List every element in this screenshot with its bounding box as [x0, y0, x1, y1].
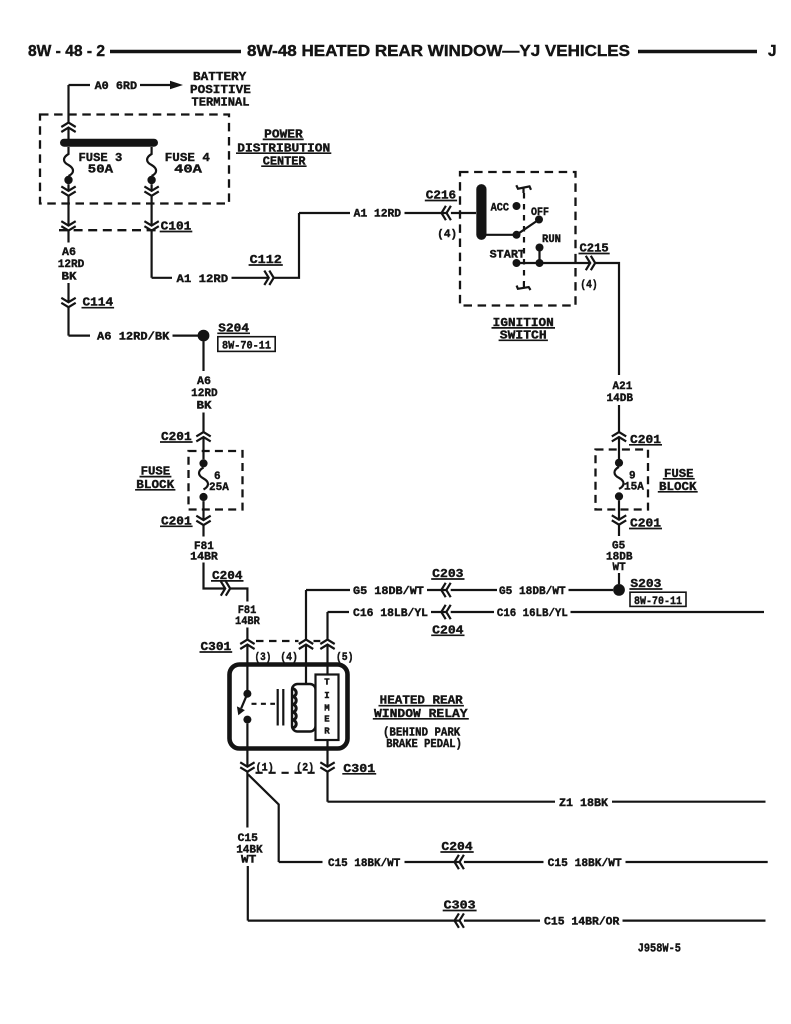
relay switch bottom dot: [243, 716, 251, 724]
terminal dot RUN: [536, 244, 544, 252]
power distribution center box: [40, 115, 229, 204]
fuse 6 top dot: [199, 459, 207, 467]
svg-text:8W - 48 - 2: 8W - 48 - 2: [28, 43, 105, 60]
connector C112 chevrons: [264, 271, 273, 285]
wire C15 14BK WT down: [247, 866, 249, 921]
svg-text:BK: BK: [197, 401, 212, 413]
terminal dot OFF: [535, 216, 543, 224]
svg-text:I: I: [324, 691, 329, 701]
svg-text:A1 12RD: A1 12RD: [177, 274, 229, 286]
svg-text:25A: 25A: [209, 482, 229, 494]
fuse 6 bottom dot: [199, 493, 207, 501]
wire G5 18DB/WT run: [306, 589, 613, 591]
wire fuse 9 to C201: [618, 501, 620, 537]
connector C204 bottom chevrons: [455, 855, 464, 869]
svg-text:(2): (2): [296, 762, 314, 774]
relay armature dashed link: [252, 703, 276, 705]
connector C201 left bottom chevrons: [196, 516, 210, 525]
svg-text:Z1 18BK: Z1 18BK: [559, 798, 608, 810]
relay switch blade: [241, 694, 247, 709]
svg-text:C16 18LB/YL: C16 18LB/YL: [353, 608, 428, 620]
connector C215 chevrons: [586, 256, 595, 270]
connector C203 chevrons: [441, 583, 450, 597]
svg-text:WT: WT: [613, 562, 627, 574]
junction dot RUN/START: [536, 259, 544, 267]
connector C101 chevrons left: [61, 221, 75, 230]
svg-text:OFF: OFF: [531, 207, 549, 219]
fuse F4 node dot: [147, 176, 155, 184]
svg-text:BRAKE PEDAL): BRAKE PEDAL): [386, 738, 462, 751]
wire relay pin 5 drop: [326, 612, 328, 675]
svg-text:A0 6RD: A0 6RD: [95, 81, 138, 93]
header rule left: [110, 50, 241, 53]
fuse 6 element: [199, 468, 208, 490]
svg-text:8W-48 HEATED REAR WINDOW—YJ VE: 8W-48 HEATED REAR WINDOW—YJ VEHICLES: [247, 43, 630, 60]
svg-text:(5): (5): [336, 652, 354, 664]
fuse 9 bottom dot: [615, 492, 623, 500]
connector C204 chevrons on F81: [221, 581, 230, 595]
svg-text:RUN: RUN: [542, 234, 561, 246]
svg-text:14DB: 14DB: [607, 393, 634, 405]
connector C301 bottom dashed line: [256, 772, 319, 774]
fuse F3 wire to connector: [67, 184, 69, 242]
svg-text:12RD: 12RD: [58, 259, 85, 271]
svg-text:M: M: [324, 704, 329, 714]
battery arrow: [170, 81, 183, 90]
fuse 9 top dot: [615, 459, 623, 467]
svg-text:TERMINAL: TERMINAL: [192, 95, 250, 109]
wire relay pin 1: [246, 724, 248, 828]
svg-text:J958W-5: J958W-5: [638, 943, 681, 956]
reference box 8W-70-11 at S203: [630, 592, 686, 606]
ignition switch feed bar: [476, 189, 486, 235]
wire START output: [517, 263, 620, 375]
svg-text:(1): (1): [256, 762, 274, 774]
wire fuse 6 to C201: [202, 501, 204, 536]
svg-text:A21: A21: [613, 381, 633, 393]
splice S204 dot: [198, 330, 210, 342]
svg-text:A6: A6: [62, 247, 76, 259]
wire RUN to start feed: [538, 248, 540, 264]
header rule right: [638, 50, 757, 53]
svg-text:C16 16LB/YL: C16 16LB/YL: [497, 608, 568, 620]
fuse F4 element: [147, 147, 156, 176]
wire F81 to C301 pin 3: [246, 628, 248, 691]
svg-text:(4): (4): [580, 279, 597, 291]
relay box: [230, 665, 348, 749]
svg-text:G5 18DB/WT: G5 18DB/WT: [499, 586, 566, 598]
ignition switch box: [460, 172, 576, 306]
timer box: [316, 675, 339, 741]
relay switch blade arrowhead: [237, 706, 245, 715]
relay coil loops: [292, 689, 296, 728]
connector C216 chevrons: [442, 206, 451, 220]
svg-text:C15 14BR/OR: C15 14BR/OR: [544, 917, 620, 929]
svg-text:A1 12RD: A1 12RD: [354, 209, 402, 221]
svg-text:12RD: 12RD: [191, 388, 218, 400]
fuse F3 node dot: [64, 176, 72, 184]
connector C301 top dashed line: [256, 640, 320, 642]
wire relay pin 4 drop: [305, 590, 307, 684]
wire A6 below S204: [202, 342, 204, 372]
wire A21 14DB to fuse block: [618, 405, 620, 459]
svg-text:8W-70-11: 8W-70-11: [634, 596, 682, 608]
svg-text:START: START: [490, 250, 526, 262]
svg-text:J: J: [768, 43, 777, 60]
relay core lines: [278, 689, 284, 726]
svg-text:R: R: [324, 726, 330, 736]
wire C15 14BR/OR run: [248, 919, 766, 921]
svg-text:14BR: 14BR: [190, 552, 218, 564]
connector C101 chevrons right: [144, 221, 158, 230]
connector chevrons below fuse F3: [61, 186, 75, 195]
connector C114 chevrons: [61, 298, 75, 307]
connector chevrons PDC entry: [61, 123, 75, 132]
svg-text:E: E: [324, 715, 330, 725]
connector C301 pin2 chevrons: [320, 762, 334, 771]
wire relay pin 2: [326, 740, 328, 802]
ignition switch break squiggle top: [516, 185, 531, 193]
svg-text:A6 12RD/BK: A6 12RD/BK: [97, 332, 170, 344]
svg-text:(3): (3): [255, 652, 272, 664]
connector chevrons below fuse F4: [144, 186, 158, 195]
connector C204 chevrons on C16: [441, 605, 450, 619]
splice S203 dot: [613, 584, 625, 596]
wire battery feed vertical: [67, 85, 69, 139]
fuse F4 wire to connector: [151, 184, 153, 278]
svg-text:(4): (4): [280, 652, 298, 664]
svg-text:C15 18BK/WT: C15 18BK/WT: [548, 858, 622, 870]
switch pivot dot: [513, 231, 521, 239]
wire A0 6RD horizontal: [69, 84, 173, 86]
svg-text:T: T: [324, 678, 330, 688]
wire bar to switch pivot: [481, 234, 516, 236]
relay coil body: [292, 684, 316, 732]
connector C301 pin1 chevrons: [240, 762, 254, 771]
fuse block left box: [189, 451, 243, 510]
connector C201 right bottom chevrons: [612, 515, 626, 524]
svg-text:WT: WT: [241, 855, 257, 867]
connector C201 right top chevrons: [612, 432, 626, 441]
svg-text:C15 18BK/WT: C15 18BK/WT: [328, 858, 401, 870]
wire C15 18BK/WT run: [279, 861, 768, 863]
ignition switch blade: [517, 220, 540, 235]
terminal dot ACC: [513, 202, 521, 210]
wire branch diagonal to C15 18BK/WT: [248, 775, 279, 863]
connector C303 chevrons: [455, 913, 464, 927]
wire F81 14BR jog to relay pin 3: [204, 563, 248, 602]
wire G5 stub to splice: [618, 573, 620, 584]
svg-text:G5 18DB/WT: G5 18DB/WT: [353, 586, 424, 598]
wire A6 12RD/BK to splice S204: [69, 335, 199, 337]
fuse block right box: [596, 450, 649, 510]
svg-text:(4): (4): [437, 229, 457, 241]
svg-text:8W-70-11: 8W-70-11: [222, 341, 271, 353]
fuse F3 element: [64, 147, 73, 176]
bus bar: [64, 139, 154, 147]
svg-text:BK: BK: [62, 272, 77, 284]
wire A6 12RD BK segment to C114: [67, 283, 69, 336]
svg-text:14BR: 14BR: [235, 616, 260, 628]
connector C301 pin5 chevrons: [320, 640, 334, 649]
svg-text:50A: 50A: [88, 162, 114, 176]
ignition switch break squiggle bottom: [517, 282, 531, 290]
svg-text:C15: C15: [238, 833, 259, 845]
wire C16 18LB/YL run: [328, 611, 765, 613]
connector C201 left top chevrons: [196, 432, 210, 441]
connector C301 pin3 chevrons: [240, 640, 254, 649]
wire Z1 18BK run: [328, 801, 766, 803]
relay switch top dot: [243, 690, 251, 698]
connector C101 dashed line: [59, 229, 158, 231]
terminal dot START: [513, 259, 521, 267]
wire A6 to left fuse block: [202, 413, 204, 460]
svg-text:40A: 40A: [174, 162, 203, 176]
fuse 9 element: [615, 467, 624, 489]
wire A1 12RD lower run: [152, 213, 476, 278]
svg-text:ACC: ACC: [491, 203, 510, 215]
svg-text:15A: 15A: [624, 481, 644, 493]
ignition switch inner dashed line: [523, 193, 525, 282]
svg-text:A6: A6: [197, 376, 211, 388]
reference box 8W-70-11 at S204: [218, 337, 275, 352]
connector C301 pin4 chevrons: [299, 640, 313, 649]
